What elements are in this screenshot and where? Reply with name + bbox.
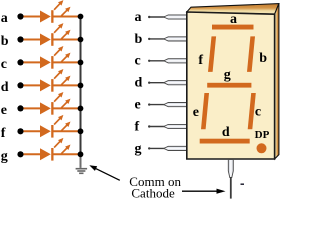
arrow to cathode pin [182, 189, 226, 194]
pin d [164, 81, 188, 85]
pin lead b [148, 38, 167, 40]
node a terminal [17, 13, 23, 19]
svg-text:a: a [230, 12, 237, 27]
svg-text:g: g [224, 68, 231, 83]
junction g [78, 151, 84, 157]
wire cathode c [53, 61, 81, 63]
node e terminal [17, 105, 23, 111]
common cathode bus [80, 17, 82, 155]
LED f [40, 125, 54, 138]
junction d [78, 83, 84, 89]
pin lead a [148, 16, 167, 18]
segment a [212, 25, 254, 30]
svg-text:c: c [255, 105, 261, 120]
arrow to ground [89, 165, 120, 180]
wire cathode e [53, 107, 81, 109]
svg-text:b: b [1, 34, 9, 49]
svg-text:d: d [135, 76, 143, 91]
light arrows b [54, 23, 70, 39]
svg-text:e: e [1, 103, 7, 118]
junction b [78, 37, 84, 43]
svg-text:b: b [259, 51, 267, 66]
wire anode a [24, 16, 41, 18]
LED d [40, 79, 54, 92]
wire anode f [24, 130, 41, 132]
svg-text:e: e [193, 105, 199, 120]
light arrows c [54, 46, 70, 62]
pin e [164, 103, 188, 107]
svg-text:c: c [135, 54, 141, 69]
pin lead f [148, 125, 167, 127]
wire anode b [24, 39, 41, 41]
pin c [164, 59, 188, 63]
ground [76, 169, 88, 174]
decimal point DP [257, 143, 267, 153]
svg-text:a: a [1, 11, 8, 26]
node b terminal [17, 36, 23, 42]
wire cathode d [53, 84, 81, 86]
svg-text:Cathode: Cathode [131, 185, 175, 200]
node c terminal [17, 59, 23, 65]
pin b [164, 37, 188, 41]
LED g [40, 148, 54, 161]
junction a [78, 14, 84, 20]
junction e [78, 106, 84, 112]
light arrows a [54, 0, 70, 16]
light arrows g [54, 138, 70, 154]
LED e [40, 102, 54, 115]
svg-text:DP: DP [255, 129, 270, 141]
pin lead d [148, 82, 167, 84]
wire bus to ground [80, 154, 82, 168]
node f terminal [17, 128, 23, 134]
svg-text:e: e [135, 98, 141, 113]
wire cathode f [53, 130, 81, 132]
wire cathode b [53, 39, 81, 41]
svg-text:b: b [135, 32, 143, 47]
svg-text:c: c [1, 57, 7, 72]
cathode pin lead [230, 177, 232, 199]
LED c [40, 56, 54, 69]
svg-text:f: f [1, 126, 6, 141]
wire cathode g [53, 153, 81, 155]
segment b [247, 36, 255, 72]
pin f [164, 124, 188, 128]
segment f [208, 36, 216, 72]
svg-text:g: g [135, 141, 142, 156]
light arrows d [54, 69, 70, 85]
segment g [207, 83, 251, 88]
light arrows f [54, 115, 70, 131]
svg-text:a: a [135, 10, 142, 25]
wire anode e [24, 107, 41, 109]
segment e [201, 93, 209, 129]
junction c [78, 60, 84, 66]
LED b [40, 33, 54, 46]
label minus [241, 183, 245, 185]
label Common Cathode [129, 174, 181, 200]
pin a [164, 15, 188, 19]
wire anode c [24, 61, 41, 63]
svg-text:d: d [1, 80, 9, 95]
pin g [164, 146, 188, 150]
LED a [40, 10, 54, 23]
junction f [78, 128, 84, 134]
pin lead e [148, 103, 167, 105]
svg-text:d: d [222, 125, 230, 140]
display package top face [187, 4, 279, 15]
node d terminal [17, 82, 23, 88]
node g terminal [17, 151, 23, 157]
svg-text:g: g [1, 149, 8, 164]
wire cathode a [53, 16, 81, 18]
wire anode d [24, 84, 41, 86]
svg-text:f: f [198, 53, 203, 68]
pin lead g [148, 147, 167, 149]
pin lead c [148, 60, 167, 62]
display package side face [275, 4, 279, 159]
display package front face [187, 12, 275, 159]
light arrows e [54, 92, 70, 108]
wire anode g [24, 153, 41, 155]
svg-text:f: f [135, 119, 140, 134]
segment d [200, 139, 250, 144]
segment c [248, 93, 256, 129]
cathode pin (bottom) [228, 160, 233, 178]
